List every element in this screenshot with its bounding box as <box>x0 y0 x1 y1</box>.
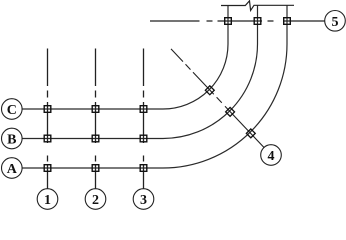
svg-text:5: 5 <box>332 15 339 30</box>
axis 2 centre line (vertical chain line) <box>95 49 97 189</box>
svg-text:1: 1 <box>44 193 51 208</box>
break line (top boundary with break symbol) <box>221 1 294 11</box>
axis bubble 4 <box>261 145 282 166</box>
axis 3 centre line (vertical chain line) <box>143 49 145 189</box>
column marker on axis 5 / line C <box>225 18 232 25</box>
axis bubble B <box>2 128 23 149</box>
diamond marker on axis 4 / line C <box>205 86 214 95</box>
svg-text:B: B <box>7 133 16 148</box>
diamond marker on axis 4 / line A <box>246 129 255 138</box>
axis bubble 5 <box>325 10 346 31</box>
axis bubble 1 <box>37 189 58 210</box>
axis bubble 3 <box>133 189 154 210</box>
column marker A3 <box>140 165 147 172</box>
column marker C1 <box>44 106 51 113</box>
grid line A (horizontal, quarter arc, vertical riser) <box>22 6 287 169</box>
svg-text:A: A <box>7 162 18 177</box>
axis bubble 2 <box>85 189 106 210</box>
svg-text:C: C <box>7 103 17 118</box>
svg-text:3: 3 <box>140 193 147 208</box>
axis 5 centre line (horizontal chain line) <box>150 20 325 22</box>
axis 1 centre line (vertical chain line) <box>47 49 49 189</box>
column marker A2 <box>92 165 99 172</box>
column marker B3 <box>140 135 147 142</box>
axis bubble C <box>2 99 23 120</box>
axis 4 centre line (45-degree chain line) <box>171 49 264 147</box>
diamond marker on axis 4 / line B <box>226 107 235 116</box>
column marker B2 <box>92 135 99 142</box>
column marker on axis 5 / line B <box>254 18 261 25</box>
grid line B (horizontal, quarter arc, vertical riser) <box>22 6 258 139</box>
axis bubble A <box>2 158 23 179</box>
column marker C3 <box>140 106 147 113</box>
column marker A1 <box>44 165 51 172</box>
column marker C2 <box>92 106 99 113</box>
grid line C (horizontal, quarter arc, vertical riser) <box>22 6 228 110</box>
column marker on axis 5 / line A <box>284 18 291 25</box>
column marker B1 <box>44 135 51 142</box>
svg-text:4: 4 <box>268 149 275 164</box>
svg-text:2: 2 <box>92 193 99 208</box>
